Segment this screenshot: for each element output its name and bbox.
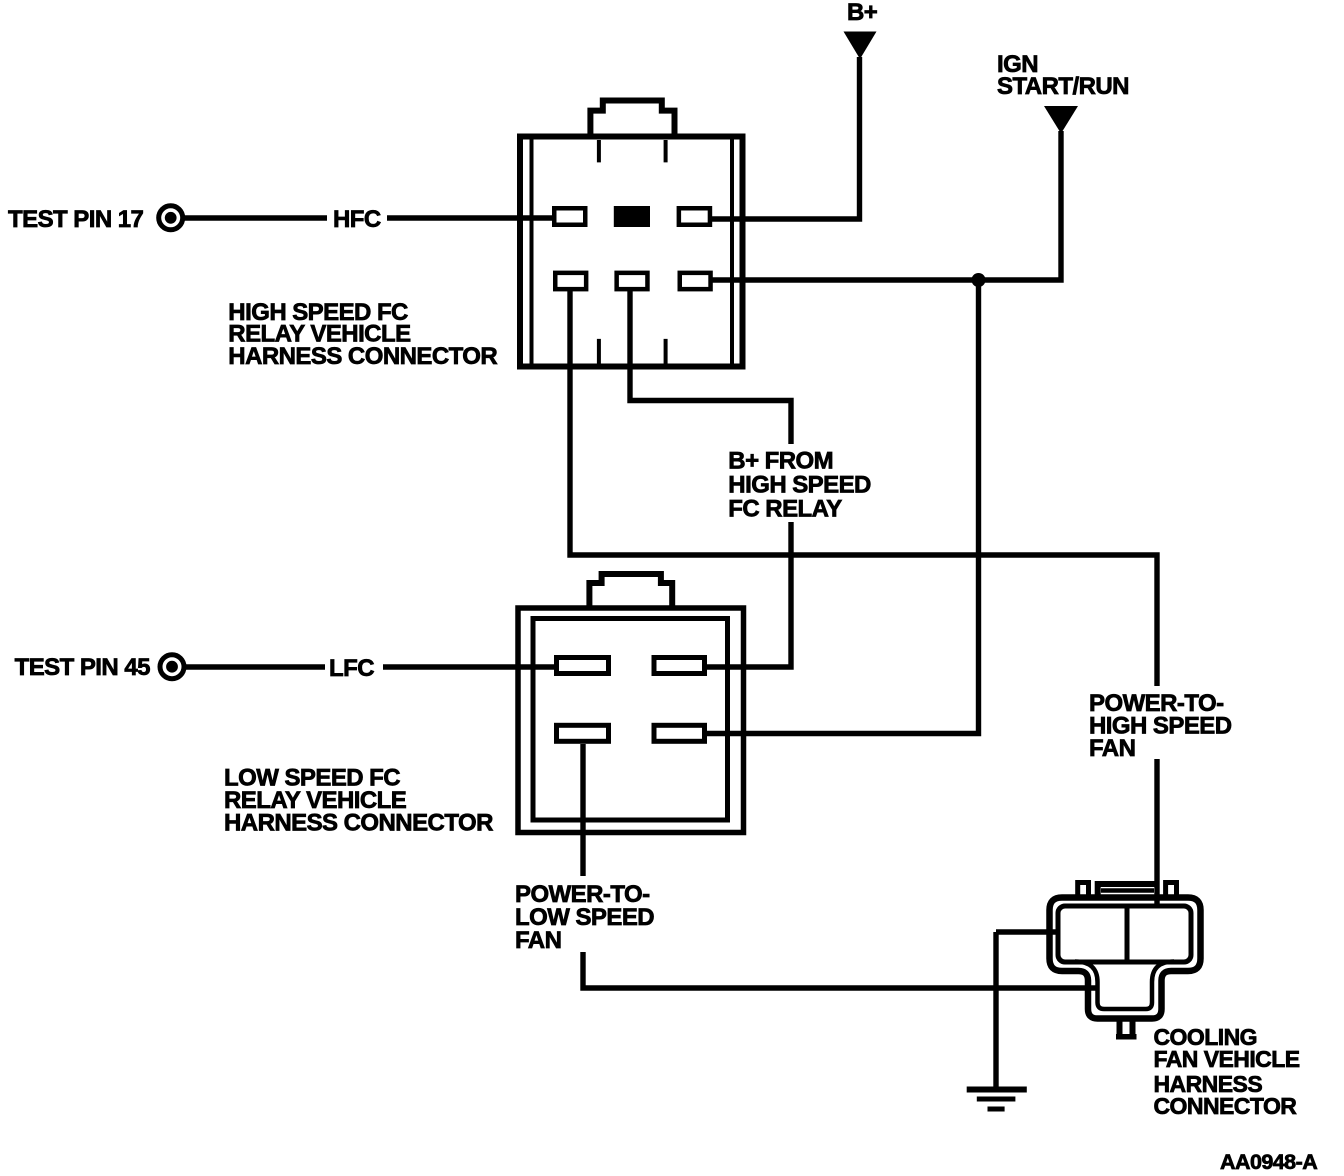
power symbol IGN START/RUN [1044,106,1078,134]
test pin 17 probe circle [159,206,183,230]
power symbol B+ [844,32,877,60]
svg-text:FAN: FAN [1089,735,1135,762]
connector J2 pin power-to-low-speed-fan (bottom-left) [557,725,609,741]
wire B+ from high speed FC relay [630,291,791,667]
connector J2 low speed FC relay vehicle harness connector body [518,574,744,833]
wire IGN START/RUN drop [710,131,1061,280]
wire ground branch stub [996,929,1058,934]
svg-text:TEST PIN 17: TEST PIN 17 [8,206,144,233]
wire power-to-high-speed-fan [570,291,1157,906]
svg-text:HARNESS CONNECTOR: HARNESS CONNECTOR [224,810,493,837]
wire ground drop [993,932,998,1088]
svg-text:FC RELAY: FC RELAY [728,496,842,523]
connector J2 pin junction (bottom-right) [654,725,705,741]
wire power-to-low-speed-fan [583,744,1096,988]
wire B+ drop to top-right pin of high speed connector [710,57,860,219]
svg-text:TEST PIN 45: TEST PIN 45 [15,654,151,681]
connector J1 pin B+-out (bottom-middle) [617,273,648,289]
svg-text:B+: B+ [847,0,878,26]
test pin 45 probe circle [160,655,184,679]
svg-text:HARNESS CONNECTOR: HARNESS CONNECTOR [228,343,497,370]
connector J1 pin B+ (top-right) [679,208,710,225]
svg-text:LFC: LFC [329,655,374,682]
connector J2 pin B+-in (top-right) [654,658,705,674]
svg-text:HFC: HFC [333,206,381,233]
connector J1 pin IGN (bottom-right) [680,273,711,289]
ground symbol [967,1090,1027,1110]
wire junction down to low speed connector bottom-right pin [705,280,979,734]
connector J1 pin power-to-high-speed-fan (bottom-left) [555,273,586,289]
svg-text:HIGH SPEED: HIGH SPEED [728,472,871,499]
connector J1 high speed FC relay vehicle harness connector body [520,101,743,367]
connector J2 pin LFC (top-left) [557,658,609,674]
wire HFC from test pin 17 to high speed connector [184,215,556,220]
svg-text:FAN: FAN [515,927,561,954]
svg-text:AA0948-A: AA0948-A [1220,1150,1317,1174]
svg-text:B+ FROM: B+ FROM [728,447,833,474]
connector J1 pin HFC (top-left) [554,208,585,225]
svg-text:CONNECTOR: CONNECTOR [1154,1093,1298,1119]
node junction on IGN wire [972,273,986,287]
wire LFC from test pin 45 to low speed connector [186,664,556,669]
connector J1 pin keyway (filled) [614,206,650,227]
svg-text:START/RUN: START/RUN [997,73,1129,100]
svg-text:FAN VEHICLE: FAN VEHICLE [1154,1046,1300,1072]
connector J3 cooling fan vehicle harness connector body [1050,883,1201,1037]
